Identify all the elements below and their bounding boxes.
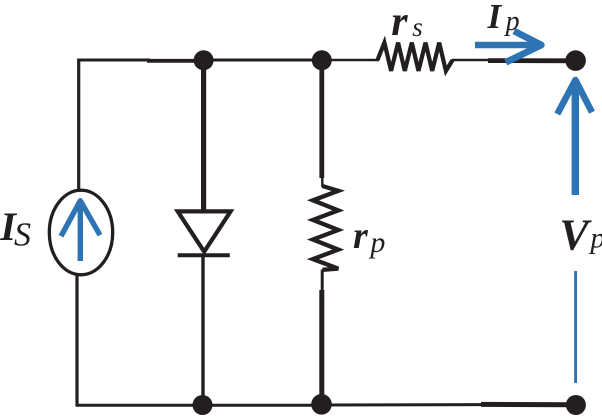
- diode D1 triangle: [178, 211, 231, 251]
- junction dot bottom right: [566, 395, 586, 415]
- voltage Vp thin blue lead line: [574, 271, 577, 383]
- wire resistor rp to bottom node (thick): [320, 270, 323, 405]
- svg-text:r: r: [353, 215, 369, 257]
- label IS: [0, 204, 31, 253]
- wire top middle horizontal (node A to node B): [204, 59, 322, 62]
- current arrow Ip (blue, right): [475, 31, 541, 62]
- junction dot output node top right: [565, 50, 586, 71]
- svg-text:r: r: [391, 0, 408, 45]
- wire bottom horizontal right (thin then thick): [322, 403, 575, 407]
- label rs: [391, 0, 423, 45]
- resistor rs zigzag: [378, 43, 453, 71]
- wire left vertical upper: [77, 59, 80, 193]
- svg-text:I: I: [487, 0, 503, 36]
- label Vp: [559, 210, 602, 259]
- svg-text:V: V: [559, 210, 592, 259]
- diode D1 cathode bar: [178, 253, 230, 257]
- wire top-left horizontal: [78, 59, 204, 63]
- current source IS ellipse: [49, 190, 112, 275]
- svg-text:p: p: [588, 222, 602, 255]
- voltage arrow Vp (blue, up): [557, 80, 592, 195]
- wire node B to resistor rs: [322, 59, 379, 62]
- wire bottom horizontal left: [76, 404, 202, 407]
- svg-text:p: p: [504, 6, 520, 37]
- junction dot node A (top, diode branch): [194, 50, 214, 70]
- svg-text:s: s: [412, 12, 423, 42]
- label Ip: [487, 0, 520, 37]
- wire resistor rs to output node (thin then thick): [452, 59, 575, 62]
- svg-text:S: S: [14, 216, 31, 253]
- wire bottom horizontal middle: [202, 404, 322, 407]
- wire diode anode (node A down to diode): [201, 60, 206, 210]
- junction dot node B (top, rp branch): [312, 50, 332, 70]
- svg-text:p: p: [368, 226, 385, 259]
- resistor rp zigzag: [313, 186, 338, 270]
- current source IS blue arrow (up): [61, 201, 100, 261]
- wire left vertical lower: [75, 273, 78, 407]
- wire node B down to resistor rp (thick): [319, 60, 324, 187]
- label rp: [353, 215, 385, 259]
- junction dot bottom rp branch: [311, 394, 332, 415]
- wire diode cathode to bottom node: [201, 255, 204, 405]
- junction dot bottom diode branch: [193, 395, 213, 415]
